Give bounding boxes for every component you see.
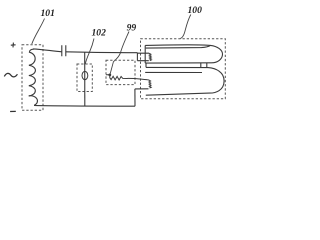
svg-text:100: 100	[188, 5, 203, 16]
svg-text:99: 99	[127, 22, 137, 33]
svg-text:101: 101	[41, 8, 55, 19]
svg-text:102: 102	[92, 27, 107, 38]
